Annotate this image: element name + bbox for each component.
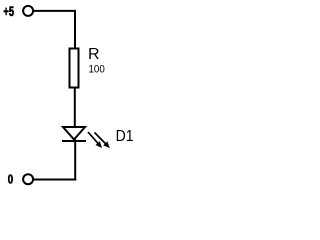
LED D1 cathode bar bbox=[62, 140, 86, 142]
terminal 0 bbox=[23, 174, 33, 184]
svg-text:D1: D1 bbox=[116, 128, 134, 145]
terminal +5 bbox=[23, 6, 33, 16]
LED D1 triangle (anode) bbox=[63, 127, 85, 140]
wire: +5 terminal to top corner bbox=[32, 10, 76, 12]
svg-text:0: 0 bbox=[8, 171, 13, 186]
wire: resistor to LED anode bbox=[74, 88, 76, 142]
wire: bottom corner to 0 terminal bbox=[32, 179, 76, 181]
svg-text:+5: +5 bbox=[3, 4, 14, 19]
LED light arrow 2 bbox=[95, 133, 110, 149]
wire: LED cathode down to bottom corner bbox=[74, 140, 76, 180]
LED light arrow 1 bbox=[88, 132, 102, 148]
resistor R1 body bbox=[70, 49, 79, 88]
svg-text:R: R bbox=[88, 46, 100, 63]
wire: top corner down to resistor bbox=[74, 10, 76, 49]
svg-text:100: 100 bbox=[89, 64, 105, 76]
